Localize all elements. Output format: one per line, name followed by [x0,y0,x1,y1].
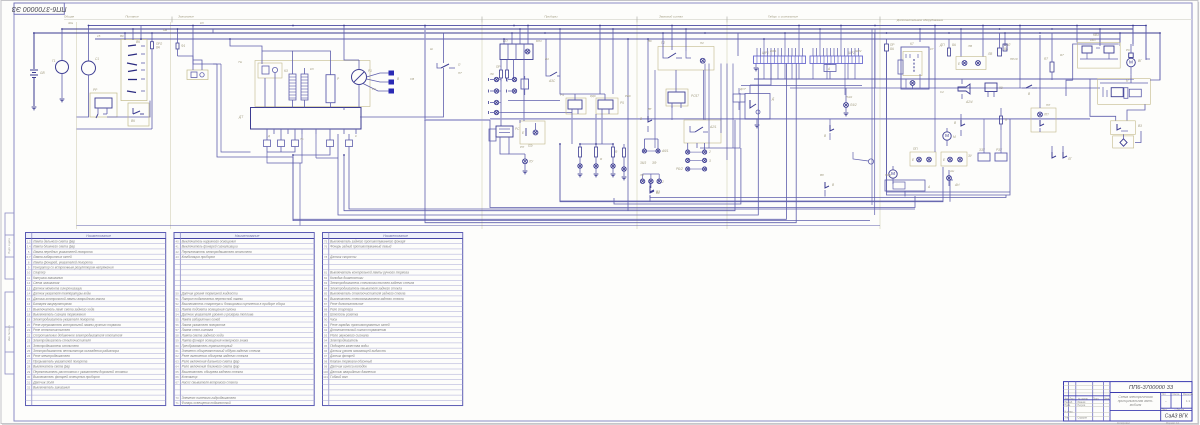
long wire nest N10 [77,225,881,227]
svg-text:16: 16 [27,302,31,306]
wires below pin boxes [267,134,349,226]
svg-text:~: ~ [1165,399,1167,403]
svg-text:Свеча зажигания: Свеча зажигания [33,281,59,285]
svg-text:П7: П7 [458,71,462,75]
svg-text:84: 84 [324,286,328,290]
strip2 top stubs [813,26,859,57]
svg-text:Лампа габаритных огней: Лампа габаритных огней [32,255,72,259]
component table 3 [323,233,463,406]
rear lamp box 2 [941,152,973,166]
svg-text:Разраб.: Разраб. [1065,402,1074,404]
svg-text:29: 29 [27,370,31,374]
svg-text:Л4/2: Л4/2 [845,95,853,99]
left loop wire around block [213,29,293,157]
svg-text:Н.контр.: Н.контр. [1065,411,1074,413]
wiper switch box C [1111,121,1142,135]
svg-text:11: 11 [27,276,30,280]
svg-text:Подп. и дата: Подп. и дата [7,238,11,254]
svg-text:Лампа фонарей, указателей пово: Лампа фонарей, указателей поворота [32,260,93,264]
instrument feeder verticals [499,78,572,126]
svg-text:91: 91 [324,323,328,327]
long wire nest N8 [293,64,786,220]
fuse PR8 [885,39,896,51]
svg-text:54: 54 [176,312,180,316]
title block [1064,382,1194,421]
svg-text:Петров: Петров [1078,405,1086,407]
svg-text:КВЗ: КВЗ [1090,38,1096,42]
svg-text:ДУТ: ДУТ [739,87,747,91]
svg-text:Иванов: Иванов [1078,402,1087,404]
svg-text:24: 24 [27,344,31,348]
long wire nest N9 [425,64,796,223]
component table 2 [174,233,314,406]
svg-text:36/3: 36/3 [640,161,646,165]
svg-text:Датчик фонарей: Датчик фонарей [329,354,354,358]
wire ignition to lower switch [77,49,153,129]
wire from relays to bottom bus [520,29,943,201]
svg-text:12: 12 [27,281,31,285]
wires turn switch [663,26,703,121]
resistor x949 [939,39,956,56]
svg-text:95: 95 [324,344,328,348]
svg-text:43: 43 [176,255,180,259]
long wire nest N7 [338,68,758,215]
wires sensor [750,64,771,94]
connector strip ShR1 [754,51,806,64]
svg-text:ШР1: ШР1 [770,49,777,53]
svg-text:Лит.: Лит. [1162,394,1167,396]
svg-text:Лампа подсвета освещения салон: Лампа подсвета освещения салона [181,307,236,311]
svg-text:62: 62 [176,354,180,358]
svg-text:М: М [1129,60,1133,66]
svg-text:89: 89 [324,312,328,316]
svg-text:Датчик момента синхронизации: Датчик момента синхронизации [32,286,82,290]
svg-text:Прерыватель указателей поворот: Прерыватель указателей поворота [33,359,87,363]
svg-text:ЛК: ЛК [489,72,494,76]
svg-text:Выключатель сигнала торможения: Выключатель сигнала торможения [33,312,86,316]
svg-text:Гибкий вал: Гибкий вал [330,375,348,379]
svg-text:R7: R7 [1060,53,1064,57]
svg-text:ШР1: ШР1 [762,51,769,55]
svg-text:М: М [945,133,949,138]
wire loop far right top [1040,26,1160,109]
svg-text:КЗ: КЗ [284,69,288,73]
svg-text:19: 19 [27,318,31,322]
svg-text:А: А [827,67,830,71]
svg-text:Фонарь освещения подкапотный: Фонарь освещения подкапотный [182,401,231,405]
svg-text:ДП: ДП [939,43,945,47]
svg-text:78: 78 [324,255,328,259]
wire light switch drop [360,26,490,121]
svg-text:ПРБ: ПРБ [885,173,891,177]
svg-text:№ докум.: № докум. [1078,397,1088,400]
svg-text:26: 26 [27,354,31,358]
svg-text:РБ/2: РБ/2 [676,167,683,171]
svg-text:61: 61 [176,349,180,353]
svg-text:Выключатель фонарей освещения: Выключатель фонарей освещения приборов [33,375,100,379]
svg-text:Часы: Часы [330,318,337,322]
plafond lamp box [1031,108,1056,132]
svg-text:Изм: Изм [1065,398,1070,400]
svg-text:1:1: 1:1 [1186,399,1191,403]
svg-text:Лампа ближнего света фар: Лампа ближнего света фар [32,245,75,249]
switch AZS [546,39,560,83]
svg-text:АН: АН [949,169,955,173]
svg-text:94: 94 [324,339,328,343]
svg-text:Датчик износа колодок: Датчик износа колодок [329,365,367,369]
svg-text:98: 98 [324,359,328,363]
section labels [64,15,943,23]
generator G1 [52,29,69,98]
svg-text:Г1: Г1 [52,59,56,63]
washer valve diamond [1113,131,1141,148]
relay block TE [178,56,209,80]
svg-text:27: 27 [27,359,31,363]
svg-text:Р5: Р5 [620,101,624,105]
relay box ZZU [978,148,990,161]
svg-text:Масса: Масса [1173,394,1181,396]
long wire nest N6 [344,39,735,211]
svg-text:АН: АН [954,183,960,187]
svg-text:Р1: Р1 [368,69,372,73]
bus line 1 [88,25,1146,27]
svg-text:Выключатель света фар: Выключатель света фар [33,365,70,369]
svg-text:Габар. и сигнальные: Габар. и сигнальные [768,15,798,19]
heater relay K7 [898,42,929,89]
svg-text:20: 20 [27,323,31,327]
svg-text:Выключатель наружного освещени: Выключатель наружного освещения [182,239,236,243]
svg-text:Выключатель стартера и блокиро: Выключатель стартера и блокировки сцепле… [182,302,285,306]
bus line 3 [33,32,1160,34]
motor M2 [889,166,897,184]
svg-text:63: 63 [176,359,180,363]
svg-text:Выключатель контрольной лампы: Выключатель контрольной лампы ручного то… [330,271,409,275]
svg-text:22: 22 [27,333,31,337]
svg-text:23: 23 [27,339,31,343]
svg-text:ЛП: ЛП [1043,113,1049,117]
wires right-middle verticals [920,26,1020,154]
spark plug connector squares [389,71,401,94]
svg-text:71: 71 [176,401,180,405]
svg-text:8А: 8А [952,43,956,47]
svg-text:90: 90 [324,318,328,322]
KV3 cluster outer loop [1073,33,1119,80]
lower switch [650,180,660,202]
svg-text:Копировал: Копировал [1117,421,1130,425]
svg-text:Электродвигатель стеклоочистит: Электродвигатель стеклоочистителя [33,339,91,343]
extra reference labels [68,21,1131,177]
relay K4 [560,93,586,114]
motor M1 [943,128,956,146]
svg-text:Ам: Ам [162,28,167,32]
wiper relay group B [1098,74,1151,104]
svg-text:В2: В2 [656,191,660,195]
svg-text:АЗС: АЗС [548,79,556,83]
svg-text:В4: В4 [545,57,549,61]
svg-text:А6/1: А6/1 [661,149,669,153]
svg-text:32: 32 [27,386,31,390]
svg-text:Электродвигатель стеклоочистит: Электродвигатель стеклоочистителя заднег… [330,281,414,285]
svg-text:2: 2 [708,150,711,154]
svg-text:Реле зарядки противотуманных о: Реле зарядки противотуманных огней [330,323,390,327]
svg-text:Ф1: Ф1 [181,44,186,48]
svg-text:ЗФ: ЗФ [652,161,657,165]
svg-text:Реле дополнительное: Реле дополнительное [330,302,363,306]
turn signal switch group [658,41,714,70]
svg-text:мобиля: мобиля [1130,403,1142,407]
svg-text:Стартер: Стартер [33,271,45,275]
section separator line [64,17,1192,23]
brake light switch [640,39,652,132]
bus line 4 [95,38,1120,40]
connector A box [824,64,836,80]
svg-text:ПП6-3700000 33: ПП6-3700000 33 [1129,385,1174,391]
svg-text:ШР2: ШР2 [855,49,862,53]
small relay near strips [733,88,745,110]
svg-text:41: 41 [176,245,180,249]
svg-text:В8: В8 [820,173,824,177]
svg-text:Переключатель расстояния с ука: Переключатель расстояния с указателем до… [33,370,128,374]
long wire nest N4 [614,148,741,204]
control lamp low [523,159,535,174]
svg-text:99: 99 [324,365,328,369]
svg-text:К9: К9 [999,86,1003,90]
svg-text:56: 56 [176,323,180,327]
svg-text:Комбинация приборов: Комбинация приборов [182,255,215,259]
svg-text:Реле стартера: Реле стартера [330,307,353,311]
resistor x1052 [1044,33,1054,80]
ground for generator [60,99,65,102]
svg-text:Реле включения обогрева заднег: Реле включения обогрева заднего стекла [182,354,249,358]
svg-text:Приборы: Приборы [544,15,558,19]
switch x961 [954,114,965,136]
svg-text:Колодка диагностики: Колодка диагностики [330,276,363,280]
svg-text:Датчик контрольной лампы авари: Датчик контрольной лампы аварийного масл… [32,297,105,301]
svg-text:ЛВ: ЛВ [987,52,993,56]
long wire nest N5 [490,120,915,208]
svg-text:8А: 8А [156,46,160,50]
svg-text:Датчик указателя температуры в: Датчик указателя температуры воды [32,292,91,296]
transistor commutator block DR [238,108,361,130]
strip1 ground [754,64,759,71]
svg-text:ЛЗ: ЛЗ [639,173,644,177]
svg-text:Электродвигатель отопителя: Электродвигатель отопителя [33,344,79,348]
ignition switch VK21 [121,39,147,100]
door contacts LG [1052,146,1072,161]
voltage regulator RR [90,88,117,118]
svg-text:Лампа фонаря освещения номерно: Лампа фонаря освещения номерного знака [181,339,249,343]
svg-text:93: 93 [324,333,328,337]
wires lamp grids [644,139,704,150]
svg-text:ЗЗУ: ЗЗУ [979,148,986,152]
lamp pair box right [956,26,993,70]
left margin stamp box A [5,213,14,279]
speedometer drops [578,114,616,177]
svg-text:ПР10: ПР10 [1010,57,1018,61]
long wire from left to center block [193,26,221,65]
wires distributor to plugs [363,73,389,91]
svg-text:28: 28 [27,365,31,369]
svg-text:51: 51 [176,297,180,301]
svg-text:8А: 8А [890,47,894,51]
svg-text:40: 40 [176,239,180,243]
rear lamp box 1 [910,147,936,166]
svg-text:КЗ: КЗ [310,67,314,71]
svg-text:БП1: БП1 [536,39,542,43]
front lamp grid left [640,149,669,165]
svg-text:Масштаб: Масштаб [1183,394,1194,396]
svg-text:Штепсель розетка: Штепсель розетка [330,312,358,316]
svg-text:А2/1: А2/1 [709,125,717,129]
svg-text:65: 65 [176,370,180,374]
flasher relay RS57 [666,70,699,108]
svg-text:ВГ: ВГ [1138,59,1142,63]
svg-text:60: 60 [176,344,180,348]
svg-text:Реле включения ближнего света: Реле включения ближнего света фар [182,365,240,369]
switch mid right [1022,85,1037,96]
fuel sensor box [745,94,775,128]
section boundary verticals [77,22,881,229]
strip1 top stubs [757,26,803,57]
svg-text:Дата: Дата [1104,398,1110,400]
svg-text:3: 3 [709,159,711,163]
svg-text:Выключатель зажигания: Выключатель зажигания [33,386,70,390]
corner designation box [11,3,66,14]
svg-text:РДС: РДС [590,94,597,98]
svg-text:РС: РС [515,127,520,131]
svg-text:Наименование: Наименование [383,234,408,238]
svg-text:57: 57 [176,328,180,332]
svg-text:Электродвигатель вентилятора о: Электродвигатель вентилятора охлаждения … [33,349,119,353]
KV3 relay group A [1078,43,1121,69]
svg-text:РС57: РС57 [691,94,699,98]
svg-text:Батарея аккумуляторная: Батарея аккумуляторная [33,302,72,306]
svg-text:СВ: СВ [410,77,414,81]
svg-text:А2/4: А2/4 [965,100,973,104]
ground for battery [32,107,37,110]
svg-text:58: 58 [176,333,180,337]
svg-text:РЗУ: РЗУ [996,148,1003,152]
resistor x1001 [1000,108,1009,130]
bottom switch B2 [650,188,660,197]
midfield verticals [655,29,1020,160]
ignition coil K3 primary [284,64,296,108]
svg-text:СаАЗ ВГК: СаАЗ ВГК [1165,414,1189,420]
svg-text:85: 85 [324,292,328,296]
svg-text:96: 96 [324,349,328,353]
svg-text:Выключатель обогрева заднего с: Выключатель обогрева заднего стекла [182,370,243,374]
wire loop left of RS [489,129,525,159]
svg-text:М: М [891,171,895,176]
svg-text:15: 15 [27,297,31,301]
fuse PR1 [176,29,186,56]
svg-text:М: М [953,135,956,139]
svg-text:Элемент питевого гидродвигател: Элемент питевого гидродвигателя [182,396,236,400]
svg-text:Наименование: Наименование [235,234,260,238]
svg-text:Дополнительное оборудование: Дополнительное оборудование [896,18,943,22]
mid horizontals under strips [700,88,1100,148]
battery GB1 [30,33,45,106]
svg-text:82: 82 [324,276,328,280]
block DR pins down [267,129,356,134]
svg-text:Подогрев качества воды: Подогрев качества воды [330,344,369,348]
svg-text:Датчик Золя: Датчик Золя [32,380,54,384]
svg-text:Патрон подключения переносной: Патрон подключения переносной лампы [182,297,244,301]
svg-text:67: 67 [176,380,180,384]
svg-text:Сидоров: Сидоров [1078,418,1088,420]
svg-text:ВЗ: ВЗ [1138,124,1142,128]
horn relay K9 [985,83,1003,97]
resistor R add [326,62,340,108]
svg-text:52: 52 [176,302,180,306]
svg-text:Клапан тормозов обгонный: Клапан тормозов обгонный [330,359,372,363]
svg-text:Лампа передних указателей пово: Лампа передних указателей поворота [32,250,93,254]
svg-text:Реле электродвигателя: Реле электродвигателя [33,354,70,358]
component table 1 [26,233,166,406]
svg-text:Дополнительный сигнал торможен: Дополнительный сигнал торможения [329,328,386,332]
svg-text:100: 100 [323,370,328,374]
relay K5 [596,94,624,114]
svg-text:Датчик аварийного давления: Датчик аварийного давления [329,370,376,374]
fuse x999 [998,33,1012,56]
svg-text:92: 92 [324,328,328,332]
svg-text:Электродвигатель: Электродвигатель [330,339,358,343]
long vertical x886 [887,51,1011,192]
right cluster feed wires [1066,26,1160,97]
svg-text:Лампа стоп-сигнала: Лампа стоп-сигнала [181,328,214,332]
svg-text:Элемент обогревательный обдува: Элемент обогревательный обдува заднего с… [182,349,261,353]
svg-text:101: 101 [323,375,328,379]
svg-text:31: 31 [27,380,31,384]
ignition unit group outline [255,61,370,107]
starter C1 [82,26,100,87]
svg-text:Датчик уровня тормозной жидкос: Датчик уровня тормозной жидкости [181,292,238,296]
svg-text:Инв. № подл.: Инв. № подл. [7,325,11,341]
lamp group PE box [520,121,545,148]
fuse top right [1003,44,1007,51]
svg-text:1,2: 1,2 [27,239,31,243]
svg-text:Выключатель ламп света заднего: Выключатель ламп света заднего хода [33,307,94,311]
svg-text:42: 42 [176,250,180,254]
wires relays top [560,26,605,95]
svg-text:R7: R7 [1044,57,1048,61]
svg-text:Реле включения дальнего света: Реле включения дальнего света фар [182,359,240,363]
left margin stamp box B [5,292,14,374]
lamp x949 bottom [947,170,952,186]
horn signal [958,84,973,104]
svg-text:Датчик уровня омывающей жидкос: Датчик уровня омывающей жидкости [329,349,386,353]
single resistor lamp far left [615,144,626,180]
svg-text:53: 53 [176,307,180,311]
svg-text:Фонарь задний противотуманный: Фонарь задний противотуманный левый [330,245,391,249]
svg-text:81: 81 [324,271,328,275]
svg-text:Выключатель стеклоомывателя за: Выключатель стеклоомывателя заднего стек… [330,297,404,301]
svg-text:Датчик скорости: Датчик скорости [329,255,356,259]
svg-text:К7: К7 [910,42,914,46]
long wire nest N3 [560,144,950,202]
svg-text:Выключатель фонарей сигнализац: Выключатель фонарей сигнализации [182,245,238,249]
nested loop wires bottom [349,152,915,209]
svg-text:Сопротивление добавочное элект: Сопротивление добавочное электродвигател… [33,333,122,337]
svg-text:Питание: Питание [125,15,139,19]
svg-text:6,7: 6,7 [27,255,31,259]
svg-text:76: 76 [324,245,328,249]
svg-text:59: 59 [176,339,180,343]
connector strip ShR2 [810,51,863,64]
svg-text:3,4: 3,4 [27,245,31,249]
light switch P53 [437,63,461,72]
svg-text:Генератор со встроенным регуля: Генератор со встроенным регулятором напр… [33,266,114,270]
